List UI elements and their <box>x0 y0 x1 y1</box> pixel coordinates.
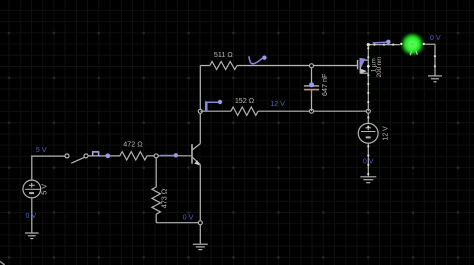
annotation stroke A2 <box>249 56 263 64</box>
ground V2 <box>360 177 376 183</box>
wire drain to LED <box>368 44 404 46</box>
wire collector up <box>199 111 201 143</box>
wire right column down <box>434 44 436 75</box>
node J4 <box>310 109 314 113</box>
current dots source column <box>367 116 369 175</box>
svg-text:647 nF: 647 nF <box>320 73 329 96</box>
annotation dot A2 <box>262 56 266 60</box>
mosfet M1 arrow <box>361 69 367 74</box>
wire V1 top lead <box>32 156 65 180</box>
node J2 <box>198 109 202 113</box>
current dots top wire <box>367 43 425 47</box>
wire base <box>156 155 192 157</box>
svg-text:473 Ω: 473 Ω <box>160 188 169 208</box>
current dots right column <box>434 55 436 67</box>
transistor Q1 <box>192 144 200 165</box>
transistor Q1 emitter arrow <box>194 160 199 165</box>
resistor R2 473ohm <box>152 158 160 223</box>
svg-text:511 Ω: 511 Ω <box>214 50 233 59</box>
LED D1 legs <box>410 51 417 55</box>
wire LED to right column <box>421 43 435 45</box>
wire bottom rail right <box>258 110 368 112</box>
svg-text:200 nm: 200 nm <box>376 57 383 78</box>
node J6 <box>198 221 202 225</box>
svg-text:0 V: 0 V <box>26 211 37 220</box>
wire V1 bottom <box>31 198 33 233</box>
node J1 <box>154 154 158 158</box>
svg-text:12 V: 12 V <box>383 126 390 141</box>
wire bottom rail left <box>200 110 231 112</box>
pen mark bottom left <box>0 261 5 265</box>
ground V1 <box>25 233 39 239</box>
wire left rail vertical <box>199 66 201 112</box>
svg-text:152 Ω: 152 Ω <box>235 96 255 105</box>
voltage source V1 5V <box>23 180 41 198</box>
LED D1 glow <box>399 31 425 57</box>
ground LED <box>428 76 442 82</box>
svg-text:472 Ω: 472 Ω <box>123 139 143 148</box>
annotation dot A4 <box>174 153 178 157</box>
resistor R4 152ohm <box>231 107 258 115</box>
ground emitter <box>193 244 208 249</box>
wire switch to R472 <box>88 155 120 157</box>
switch SW1 <box>65 154 88 163</box>
annotation stroke A1 <box>93 152 99 156</box>
wire top rail left <box>200 65 210 67</box>
wire to ground <box>199 225 201 244</box>
wire top rail to gate <box>237 65 358 67</box>
wire R473 bottom to emitter <box>156 222 200 224</box>
svg-text:5 V: 5 V <box>36 145 47 154</box>
annotation blob A6 mosfet <box>359 58 365 69</box>
svg-text:0 V: 0 V <box>183 213 194 222</box>
resistor R3 511ohm <box>210 62 237 70</box>
resistor R1 472ohm <box>120 152 147 160</box>
mosfet M1 <box>358 59 369 74</box>
annotation stroke A5 <box>373 41 387 44</box>
svg-text:12 V: 12 V <box>270 99 285 108</box>
voltage source V2 12V <box>358 113 378 176</box>
node J3 <box>310 64 314 68</box>
current dots drain column <box>367 47 370 103</box>
svg-text:0 V: 0 V <box>430 33 441 42</box>
svg-text:5 V: 5 V <box>39 184 48 195</box>
wire R472 to node <box>147 155 156 157</box>
annotation dot A1 <box>105 153 110 158</box>
annotation dot A7 capacitor <box>309 82 314 87</box>
capacitor C1 647nF <box>304 68 319 112</box>
wire drain column <box>367 45 369 112</box>
annotation stroke A3 <box>206 101 219 110</box>
node J5 <box>366 109 370 113</box>
annotation stroke A4 <box>160 155 174 157</box>
wire emitter down <box>199 165 201 223</box>
annotation dot A5 <box>386 40 391 45</box>
annotation dot A3 <box>218 100 222 104</box>
